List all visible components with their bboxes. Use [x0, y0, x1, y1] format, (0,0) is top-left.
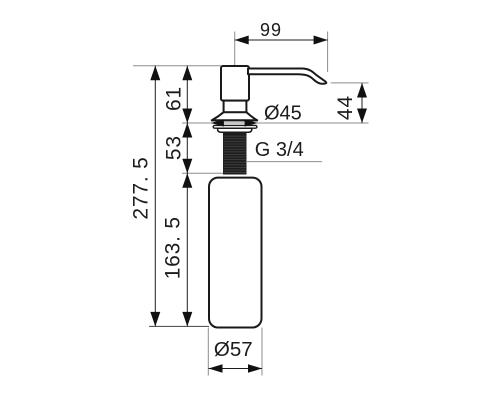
pump neck	[224, 101, 247, 113]
washer plate	[213, 125, 257, 128]
svg-text:Ø57: Ø57	[214, 338, 253, 361]
svg-text:G 3/4: G 3/4	[255, 139, 304, 161]
svg-text:Ø45: Ø45	[264, 103, 302, 125]
svg-text:61: 61	[162, 86, 185, 111]
svg-text:99: 99	[260, 20, 282, 40]
extension line Ø57 right	[261, 328, 263, 376]
dimension Ø57 line	[209, 368, 263, 370]
dimension 277.5 line	[154, 66, 156, 327]
extension line bottle bottom	[149, 325, 209, 327]
arrow 44 down	[357, 109, 367, 124]
extension line thread bottom	[182, 172, 223, 174]
arrow 277.5 up	[150, 66, 160, 81]
pump head body	[221, 66, 249, 101]
arrow 99 left	[235, 36, 249, 45]
G 3/4 leader line	[247, 161, 322, 163]
arrow 99 right	[314, 36, 328, 45]
extension line 99 left (head centerline)	[234, 32, 236, 66]
arrow 277.5 down	[150, 312, 160, 327]
flange	[212, 112, 257, 120]
threaded tube G3/4	[223, 132, 247, 174]
svg-text:163. 5: 163. 5	[162, 216, 185, 279]
arrow Ø45 right	[245, 119, 258, 126]
arrow 163.5 down	[182, 312, 192, 327]
arrow 44 up	[357, 83, 367, 98]
arrow pair at thread bottom level	[182, 159, 192, 174]
arrow 61 up	[182, 66, 192, 81]
flange bottom edge	[211, 119, 257, 121]
svg-text:44: 44	[334, 95, 357, 120]
dimension 44 line	[361, 83, 363, 123]
bottle	[209, 178, 262, 328]
extension line 44 top	[331, 82, 369, 84]
extension line head top	[133, 65, 221, 67]
extension line Ø57 left	[207, 328, 209, 376]
arrow Ø57 right	[248, 364, 262, 373]
svg-text:53: 53	[162, 135, 185, 160]
lock nut	[218, 128, 252, 132]
arrow Ø45 left	[211, 119, 224, 126]
dimension 61/53/163.5 line	[186, 66, 188, 327]
arrow pair at mounting level	[182, 109, 192, 124]
mounting surface extension line / Ø45 leader	[182, 122, 369, 124]
svg-text:277. 5: 277. 5	[130, 156, 153, 219]
arrow Ø57 left	[209, 364, 223, 373]
dimension 99 line	[235, 39, 328, 41]
spout	[248, 69, 326, 84]
extension line 99 right (spout tip)	[327, 32, 329, 73]
